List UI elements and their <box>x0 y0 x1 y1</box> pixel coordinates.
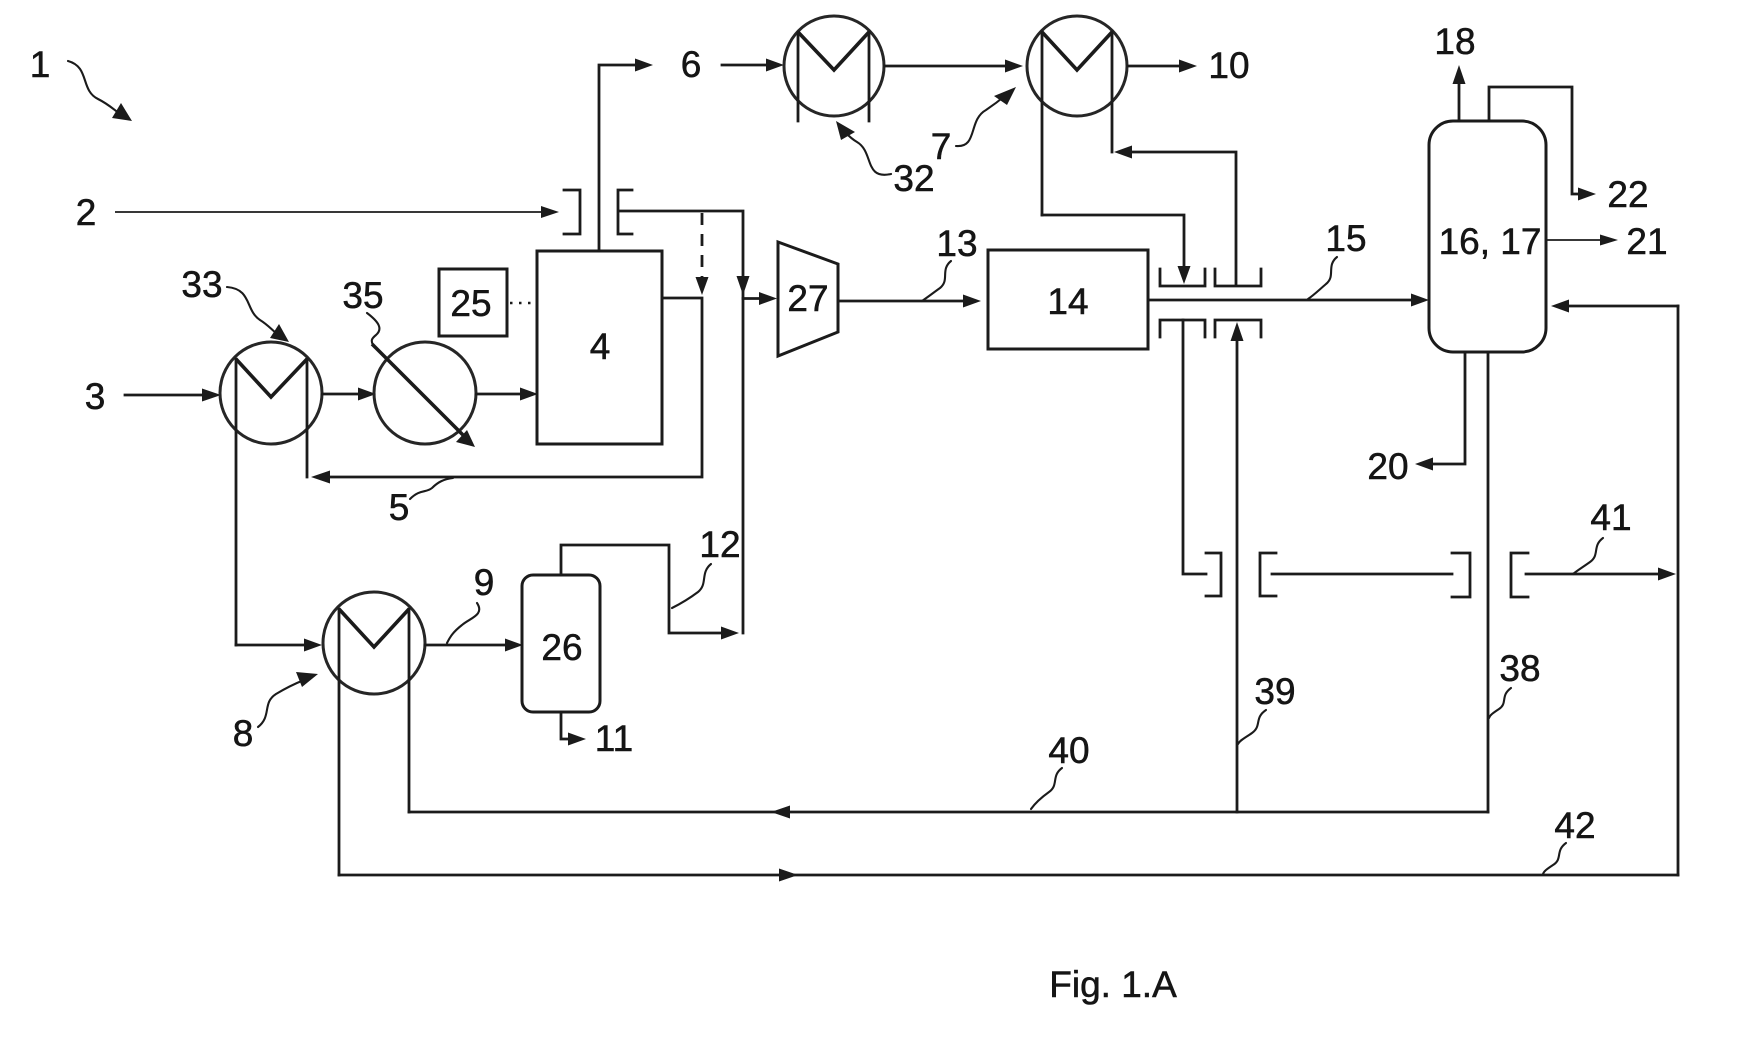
wire feed to HX8 <box>236 639 322 652</box>
svg-text:41: 41 <box>1590 497 1631 538</box>
leader arrow for label 1 <box>68 61 132 121</box>
wire line 15 <box>1148 294 1429 307</box>
svg-text:5: 5 <box>389 487 410 528</box>
leader arrow for label 8 <box>258 672 318 727</box>
leader for label 42 <box>1543 843 1566 874</box>
leader for label 5 <box>410 478 453 499</box>
wire stream 2 to compressor junction <box>620 211 750 633</box>
wire line 12 <box>561 545 739 640</box>
svg-text:21: 21 <box>1626 221 1667 262</box>
wire stream 18 <box>1453 65 1466 121</box>
compressor 27 <box>778 242 838 356</box>
jump bracket 41 right of line 39 <box>1260 553 1276 596</box>
wire HX7 left chord down to line 15 <box>1042 215 1191 284</box>
leader arrow for label 32 <box>836 121 891 175</box>
leader for label 9 <box>447 603 479 643</box>
wire line 41 middle segment <box>1272 573 1452 576</box>
nozzle bracket D below line 15 <box>1215 320 1261 337</box>
nozzle bracket C below line 15 <box>1160 320 1205 337</box>
svg-text:2: 2 <box>76 192 97 233</box>
wire line 40 <box>409 806 1488 819</box>
jump bracket 41 left of line 39 <box>1206 553 1221 596</box>
leader for label 12 <box>672 564 711 608</box>
jump bracket 41 right of line 38 <box>1511 553 1528 597</box>
svg-text:25: 25 <box>450 283 491 324</box>
leader for label 38 <box>1489 688 1511 718</box>
svg-text:3: 3 <box>85 376 106 417</box>
wire stream 6 to HX32 <box>722 59 784 72</box>
wire line 42 <box>339 869 1678 882</box>
leader for label 35 <box>367 313 379 345</box>
nozzle bracket B above line 15 <box>1215 269 1261 286</box>
svg-text:22: 22 <box>1607 174 1648 215</box>
svg-text:26: 26 <box>541 627 582 668</box>
nozzle bracket A above line 15 <box>1160 269 1205 286</box>
svg-text:11: 11 <box>595 718 633 759</box>
leader for label 13 <box>922 261 951 301</box>
wire stream 2 <box>115 206 559 218</box>
separator 26 <box>522 575 600 712</box>
wire compressor suction <box>743 292 777 305</box>
wire stream 21 <box>1546 235 1618 246</box>
heat exchanger 7 <box>1027 16 1127 215</box>
wire right riser 41 42 <box>1677 306 1680 875</box>
svg-text:10: 10 <box>1208 45 1249 86</box>
svg-text:8: 8 <box>233 713 254 754</box>
wire line 41 to right riser <box>1526 568 1676 581</box>
wire HX35 to vessel 4 <box>476 388 538 401</box>
wire HX33 to HX35 <box>322 388 376 401</box>
wire branch 41 from line 15 <box>1183 320 1206 574</box>
svg-text:16, 17: 16, 17 <box>1439 221 1542 262</box>
jump bracket 41 left of line 38 <box>1452 553 1470 597</box>
heat exchanger 33 <box>220 342 322 645</box>
svg-text:40: 40 <box>1048 730 1089 771</box>
wire stream 11 <box>561 712 586 746</box>
wire stream 9 <box>425 639 523 652</box>
svg-text:12: 12 <box>699 524 740 565</box>
vessel 4 <box>537 251 662 444</box>
wire vessel 4 side outlet and recycle line 5 <box>311 298 702 484</box>
jump bracket left of riser <box>564 190 580 234</box>
svg-text:39: 39 <box>1254 671 1295 712</box>
leader for label 41 <box>1573 538 1603 574</box>
wire line 38 <box>1487 352 1490 812</box>
reactor 14 <box>988 250 1148 349</box>
svg-text:18: 18 <box>1434 21 1475 62</box>
svg-text:7: 7 <box>931 126 952 167</box>
dashed control line <box>696 213 709 295</box>
wire line 39 <box>1231 322 1244 812</box>
svg-text:1: 1 <box>30 44 51 85</box>
wire stream 3 <box>125 389 221 402</box>
svg-text:6: 6 <box>681 44 702 85</box>
svg-text:20: 20 <box>1367 446 1408 487</box>
leader arrow for label 7 <box>956 87 1016 146</box>
adjustable element 35 <box>372 342 476 447</box>
wire stream 20 <box>1415 352 1465 471</box>
leader for label 39 <box>1238 710 1266 744</box>
leader for label 40 <box>1031 768 1062 809</box>
wire stream 13 <box>838 295 981 308</box>
leader arrow for label 33 <box>227 287 289 342</box>
wire recycle inlet right of vessel <box>1551 300 1678 313</box>
jump bracket right of riser <box>618 190 632 234</box>
svg-text:35: 35 <box>342 275 383 316</box>
heat exchanger 8 <box>323 592 425 875</box>
svg-text:14: 14 <box>1047 281 1088 322</box>
svg-text:9: 9 <box>474 562 495 603</box>
svg-text:42: 42 <box>1554 805 1595 846</box>
heat exchanger 32 <box>784 16 884 121</box>
wire overhead riser and stream 6 arrow <box>599 59 653 252</box>
wire line 15 up to HX7 right chord <box>1114 146 1236 285</box>
svg-text:27: 27 <box>787 278 828 319</box>
leader for label 15 <box>1308 257 1337 299</box>
svg-text:13: 13 <box>936 223 977 264</box>
wire stream 22 <box>1489 87 1596 201</box>
svg-text:15: 15 <box>1325 218 1366 259</box>
vessel 16 17 <box>1429 121 1546 352</box>
svg-text:4: 4 <box>590 326 611 367</box>
svg-text:38: 38 <box>1499 648 1540 689</box>
controller box 25 <box>439 269 507 336</box>
svg-text:32: 32 <box>893 158 934 199</box>
wire HX32 to HX7 <box>885 60 1023 73</box>
svg-text:33: 33 <box>181 264 222 305</box>
svg-text:Fig. 1.A: Fig. 1.A <box>1049 964 1177 1005</box>
dotted link 25 to vessel 4 <box>510 302 536 305</box>
wire stream 10 <box>1128 60 1197 73</box>
